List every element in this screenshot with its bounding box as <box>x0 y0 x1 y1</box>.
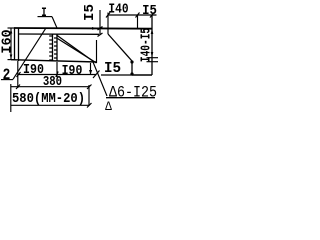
diagonal brace line 1 <box>57 35 94 62</box>
right block left edge + extension <box>107 13 109 35</box>
right dim tick lower <box>147 61 159 63</box>
right dim tick upper <box>147 57 159 59</box>
beam left inner line (end plate) <box>18 28 20 61</box>
580 box: left vertical <box>10 84 12 112</box>
weld text underline <box>106 97 155 99</box>
tick arrows top dim <box>106 13 154 18</box>
svg-text:Δ: Δ <box>105 99 113 114</box>
right edge <box>151 15 153 75</box>
right dim arrow bottom <box>151 52 154 57</box>
svg-text:Δ6-I25: Δ6-I25 <box>109 84 157 101</box>
dim line 190/190 <box>19 74 97 76</box>
flange dim ticks <box>98 27 103 37</box>
svg-text:I: I <box>41 7 46 21</box>
dim line top (140 / 15) <box>108 14 157 16</box>
arrow on beam top line end <box>92 27 97 30</box>
weld dots on plate <box>130 60 133 63</box>
label 2 underline <box>1 79 13 81</box>
arrow right 380ext <box>89 70 92 75</box>
beam web right edge <box>96 40 98 63</box>
svg-text:I40-I5: I40-I5 <box>138 28 154 62</box>
160 arrow bottom <box>10 55 13 60</box>
380 dim line <box>11 86 89 88</box>
ticks on box <box>16 85 92 108</box>
svg-text:I90: I90 <box>62 62 83 78</box>
ticks on 190 dim <box>17 71 100 79</box>
svg-text:380: 380 <box>43 74 62 90</box>
svg-text:2: 2 <box>3 67 11 85</box>
extension of left edge down <box>17 61 19 88</box>
dim 15 bottom: line <box>101 74 132 76</box>
extension right <box>90 63 92 74</box>
svg-text:I60: I60 <box>1 29 16 53</box>
vertical dim 15 (flange) line <box>99 10 101 35</box>
beam left outer edge <box>14 28 16 61</box>
right dim arrow top <box>151 29 154 34</box>
stiffener weld ticks <box>49 36 52 60</box>
label 1 leader <box>52 17 57 28</box>
580 box bottom line <box>11 104 89 106</box>
label 1 underline <box>38 16 53 18</box>
seat plate bottom <box>132 74 152 76</box>
stiffener line 1 <box>52 34 54 61</box>
beam bottom edge <box>11 60 97 62</box>
svg-text:I5: I5 <box>142 2 157 18</box>
sloped cut edge <box>108 34 132 61</box>
svg-text:I40: I40 <box>108 0 128 17</box>
diagonal brace line 2 <box>58 39 97 64</box>
dim 160: vertical line <box>10 28 12 60</box>
top flange bottom line <box>19 33 99 35</box>
stiffener line 2 <box>56 34 58 62</box>
seat plate left edge <box>131 61 133 75</box>
svg-text:I5: I5 <box>104 61 121 77</box>
beam top edge <box>14 27 152 30</box>
160 top tick <box>8 27 16 29</box>
580 box: right vertical <box>88 85 90 106</box>
extension at 137 <box>137 15 139 28</box>
label 2 leader <box>13 29 46 80</box>
svg-text:580(MM-20): 580(MM-20) <box>12 90 85 106</box>
svg-text:I5: I5 <box>82 4 98 21</box>
160 bottom tick <box>8 59 16 61</box>
weld leader <box>93 62 107 96</box>
160 arrow top <box>10 29 13 34</box>
extension mid <box>56 62 58 77</box>
svg-text:I90: I90 <box>23 61 44 77</box>
